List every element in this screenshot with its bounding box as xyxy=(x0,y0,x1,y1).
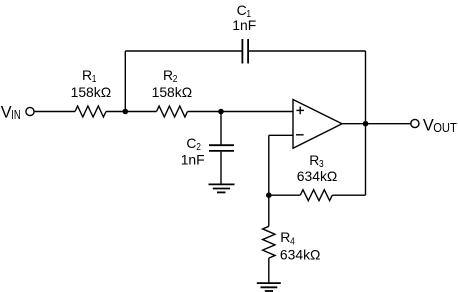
wire R1 to R2 xyxy=(106,111,157,113)
svg-text:C: C xyxy=(237,2,247,18)
label R1 xyxy=(82,67,96,86)
op-amp U1 xyxy=(293,100,342,149)
label VOUT xyxy=(423,116,457,135)
svg-text:R: R xyxy=(82,67,92,83)
wire node B down to C2 xyxy=(220,112,222,145)
terminal VOUT circle xyxy=(411,119,419,127)
op-amp U1 inverting input marker xyxy=(296,134,304,136)
wire feedback top right segment xyxy=(249,50,366,52)
node C junction dot xyxy=(266,192,272,198)
svg-text:V: V xyxy=(423,116,434,134)
label C1 xyxy=(237,2,251,21)
node B junction dot xyxy=(218,109,224,115)
wire node C to R3 xyxy=(269,194,301,196)
svg-text:V: V xyxy=(1,103,12,121)
wire op-amp output to VOUT xyxy=(342,123,411,125)
label R2 xyxy=(163,67,177,86)
svg-text:634kΩ: 634kΩ xyxy=(280,247,321,263)
label VIN xyxy=(1,103,21,122)
wire R4 to ground xyxy=(268,258,270,283)
label C2 xyxy=(186,135,200,154)
svg-text:158kΩ: 158kΩ xyxy=(71,84,112,100)
wire feedback vertical up to output node xyxy=(365,124,367,196)
node A junction dot xyxy=(123,109,129,115)
wire C2 to ground xyxy=(220,152,222,185)
op-amp U1 non-inverting input marker xyxy=(296,107,304,115)
wire feedback down to output node xyxy=(365,51,367,124)
svg-text:634kΩ: 634kΩ xyxy=(297,168,338,184)
ground below R4 xyxy=(257,283,281,291)
svg-text:R: R xyxy=(280,229,290,245)
wire inverting input down to node C xyxy=(268,135,270,195)
wire VIN to R1 xyxy=(35,111,75,113)
wire op-amp inverting input xyxy=(269,134,293,136)
terminal VIN circle xyxy=(26,107,34,115)
label R3 xyxy=(309,152,323,171)
output node junction dot xyxy=(363,121,369,127)
resistor R4 xyxy=(263,226,275,258)
resistor R1 xyxy=(75,106,106,117)
capacitor C2 xyxy=(209,145,234,151)
svg-text:R: R xyxy=(163,67,173,83)
wire node C down to R4 xyxy=(268,195,270,226)
wire feedback top left segment xyxy=(125,50,241,52)
svg-text:1nF: 1nF xyxy=(181,152,205,168)
svg-text:IN: IN xyxy=(11,109,21,123)
ground below C2 xyxy=(209,184,235,192)
wire R3 to feedback vertical xyxy=(332,194,365,196)
resistor R2 xyxy=(157,106,188,117)
capacitor C1 xyxy=(242,39,248,64)
wire node A up to feedback xyxy=(124,51,126,112)
svg-text:C: C xyxy=(186,135,196,151)
svg-text:R: R xyxy=(309,152,319,168)
label R4 xyxy=(280,229,294,248)
wire R2 to op-amp xyxy=(188,111,294,113)
svg-text:158kΩ: 158kΩ xyxy=(152,84,193,100)
resistor R3 xyxy=(300,190,332,201)
svg-text:1nF: 1nF xyxy=(232,17,256,33)
svg-text:OUT: OUT xyxy=(433,120,457,135)
